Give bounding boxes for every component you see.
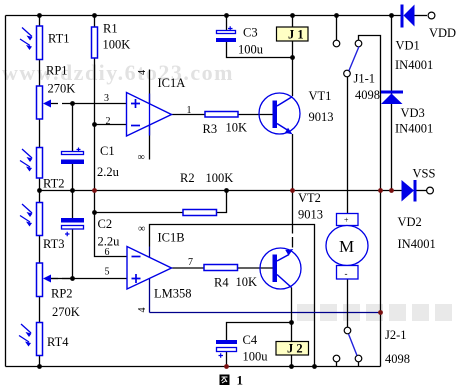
svg-text:C4: C4 [243, 333, 258, 347]
svg-text:VD3: VD3 [401, 106, 425, 120]
wire VD3 branch vertical [391, 16, 393, 191]
svg-text:C1: C1 [100, 144, 115, 158]
resistor R3 [205, 112, 238, 118]
relay coil J1 [277, 27, 309, 42]
motor M [326, 214, 368, 280]
svg-text:4098: 4098 [355, 88, 380, 102]
transistor VT1 [259, 93, 300, 134]
svg-text:-: - [345, 269, 348, 279]
photoresistor RT4 [19, 323, 43, 356]
wire C1 C2 branch vertical [72, 104, 74, 279]
svg-text:C2: C2 [98, 217, 113, 231]
junction dots bottom rail [37, 364, 317, 369]
svg-text:RP1: RP1 [46, 64, 68, 78]
wire bottom rail [6, 366, 381, 368]
junction dots mid nodes [37, 55, 295, 325]
svg-text:R3: R3 [203, 122, 218, 136]
wire op-amp pin5 [50, 278, 127, 280]
resistor R1 [92, 27, 98, 58]
wire IC1B pin8 rail [150, 225, 315, 367]
svg-text:RT4: RT4 [47, 335, 69, 349]
wire J1 coil line [292, 16, 294, 97]
wire top VDD rail [6, 15, 401, 17]
wire IC1A output to R3 [172, 114, 206, 116]
wire op-amp pin3 [73, 103, 127, 105]
svg-text:VD2: VD2 [398, 215, 422, 229]
svg-text:9013: 9013 [298, 208, 323, 222]
potentiometer RP1 [37, 86, 52, 119]
svg-text:4: 4 [137, 70, 148, 75]
capacitor C2 [61, 218, 84, 236]
svg-text:2.2u: 2.2u [97, 165, 120, 179]
relay contact J1-1 [333, 40, 362, 77]
photoresistor RT3 [20, 203, 43, 236]
terminal VDD [428, 12, 435, 19]
svg-text:∞: ∞ [138, 152, 145, 163]
svg-text:RP2: RP2 [51, 287, 73, 301]
wire RP1 wiper tail [50, 103, 73, 105]
svg-text:VD1: VD1 [396, 39, 420, 53]
diode VD2 [402, 180, 417, 202]
svg-text:5: 5 [105, 267, 110, 278]
wire IC1B power line blue [149, 247, 151, 313]
wire VD2 to terminal [417, 190, 427, 192]
junction dots red [92, 188, 394, 369]
resistor R4 [204, 265, 238, 271]
svg-text:∞: ∞ [138, 224, 145, 235]
svg-text:R2: R2 [180, 171, 195, 185]
wire IC1B output to R4 [172, 267, 205, 269]
svg-text:1: 1 [187, 105, 192, 116]
capacitor C3 [216, 26, 236, 42]
svg-text:IC1B: IC1B [158, 231, 185, 245]
wire left chain segments [39, 16, 41, 367]
svg-text:4098: 4098 [385, 352, 410, 366]
svg-text:4: 4 [137, 308, 148, 313]
svg-text:6: 6 [105, 247, 110, 258]
wire VD1 to terminal [415, 15, 428, 17]
svg-text:R4: R4 [214, 276, 229, 290]
wire motor branch [347, 77, 349, 328]
svg-text:IN4001: IN4001 [395, 122, 433, 136]
svg-text:+: + [344, 216, 349, 225]
svg-text:www.dzdiy.6to23.com: www.dzdiy.6to23.com [2, 60, 234, 85]
svg-text:RT2: RT2 [43, 177, 64, 191]
svg-text:J 1: J 1 [288, 28, 304, 42]
svg-text:10K: 10K [226, 121, 248, 135]
diode VD3 [381, 91, 403, 105]
svg-text:2: 2 [106, 116, 111, 127]
svg-text:7: 7 [188, 257, 193, 268]
wire R3 to VT1 base [238, 114, 273, 116]
capacitor C1 [61, 148, 84, 165]
svg-text:IC1A: IC1A [158, 76, 186, 90]
svg-text:VDD: VDD [429, 26, 456, 40]
photoresistor RT1 [20, 26, 43, 60]
svg-text:VT1: VT1 [309, 89, 332, 103]
relay coil J2 [276, 342, 309, 356]
wire J2-1 contact stubs [337, 362, 359, 367]
svg-text:M: M [339, 237, 354, 256]
wire mid VSS rail [40, 190, 402, 192]
relay contact J2-1 [333, 327, 362, 362]
diode VD1 [401, 5, 415, 28]
svg-text:RT3: RT3 [43, 237, 64, 251]
wire R2 loop [95, 212, 184, 214]
svg-text:VSS: VSS [413, 167, 436, 181]
frame left border wire [5, 16, 7, 367]
wire RP2 wiper tail [50, 278, 73, 280]
caption figure 1 [220, 373, 244, 387]
potentiometer RP2 [37, 263, 52, 297]
svg-text:J 2: J 2 [287, 342, 303, 356]
capacitor C4 [216, 340, 237, 358]
photoresistor RT2 [20, 148, 43, 179]
wire R4 to VT2 base [238, 267, 273, 269]
terminal VSS [427, 187, 434, 194]
svg-text:270K: 270K [48, 82, 76, 96]
svg-text:10K: 10K [236, 275, 258, 289]
svg-text:IN4001: IN4001 [398, 237, 436, 251]
svg-text:J1-1: J1-1 [354, 72, 376, 86]
wire C3 branch [226, 16, 228, 31]
resistor R2 [183, 210, 217, 216]
wire IC1A power pin line [149, 70, 151, 160]
wire C4 branch [227, 323, 292, 341]
svg-text:100u: 100u [243, 350, 269, 364]
svg-text:R1: R1 [103, 22, 118, 36]
svg-text:100K: 100K [206, 171, 234, 185]
op-amp IC1B [127, 247, 172, 290]
junction dots top rail [37, 13, 394, 18]
wire VT2 emitter up [292, 191, 294, 248]
wire right branch vertical [359, 36, 381, 367]
svg-text:270K: 270K [52, 305, 80, 319]
svg-text:LM358: LM358 [154, 287, 192, 301]
transistor VT2 [260, 248, 301, 289]
wire VT2 collector down J2 [291, 288, 293, 367]
svg-text:J2-1: J2-1 [385, 328, 407, 342]
svg-text:C3: C3 [243, 26, 258, 40]
watermark chinese bottom [297, 304, 452, 321]
svg-text:100u: 100u [238, 43, 264, 57]
svg-text:RT1: RT1 [48, 32, 69, 46]
svg-text:IN4001: IN4001 [395, 58, 433, 72]
svg-text:100K: 100K [103, 38, 131, 52]
wire R1 branch and inverting line [95, 16, 128, 257]
wire J1-1 left contact stub [336, 16, 338, 41]
wire VT1 emitter down [292, 134, 294, 191]
svg-text:1: 1 [237, 373, 244, 387]
svg-text:9013: 9013 [309, 110, 334, 124]
svg-text:3: 3 [104, 93, 109, 104]
wire blue pin4 rail [150, 312, 381, 314]
op-amp IC1A [127, 93, 172, 137]
wire op-amp pin2 [95, 124, 127, 126]
svg-text:VT2: VT2 [298, 191, 321, 205]
